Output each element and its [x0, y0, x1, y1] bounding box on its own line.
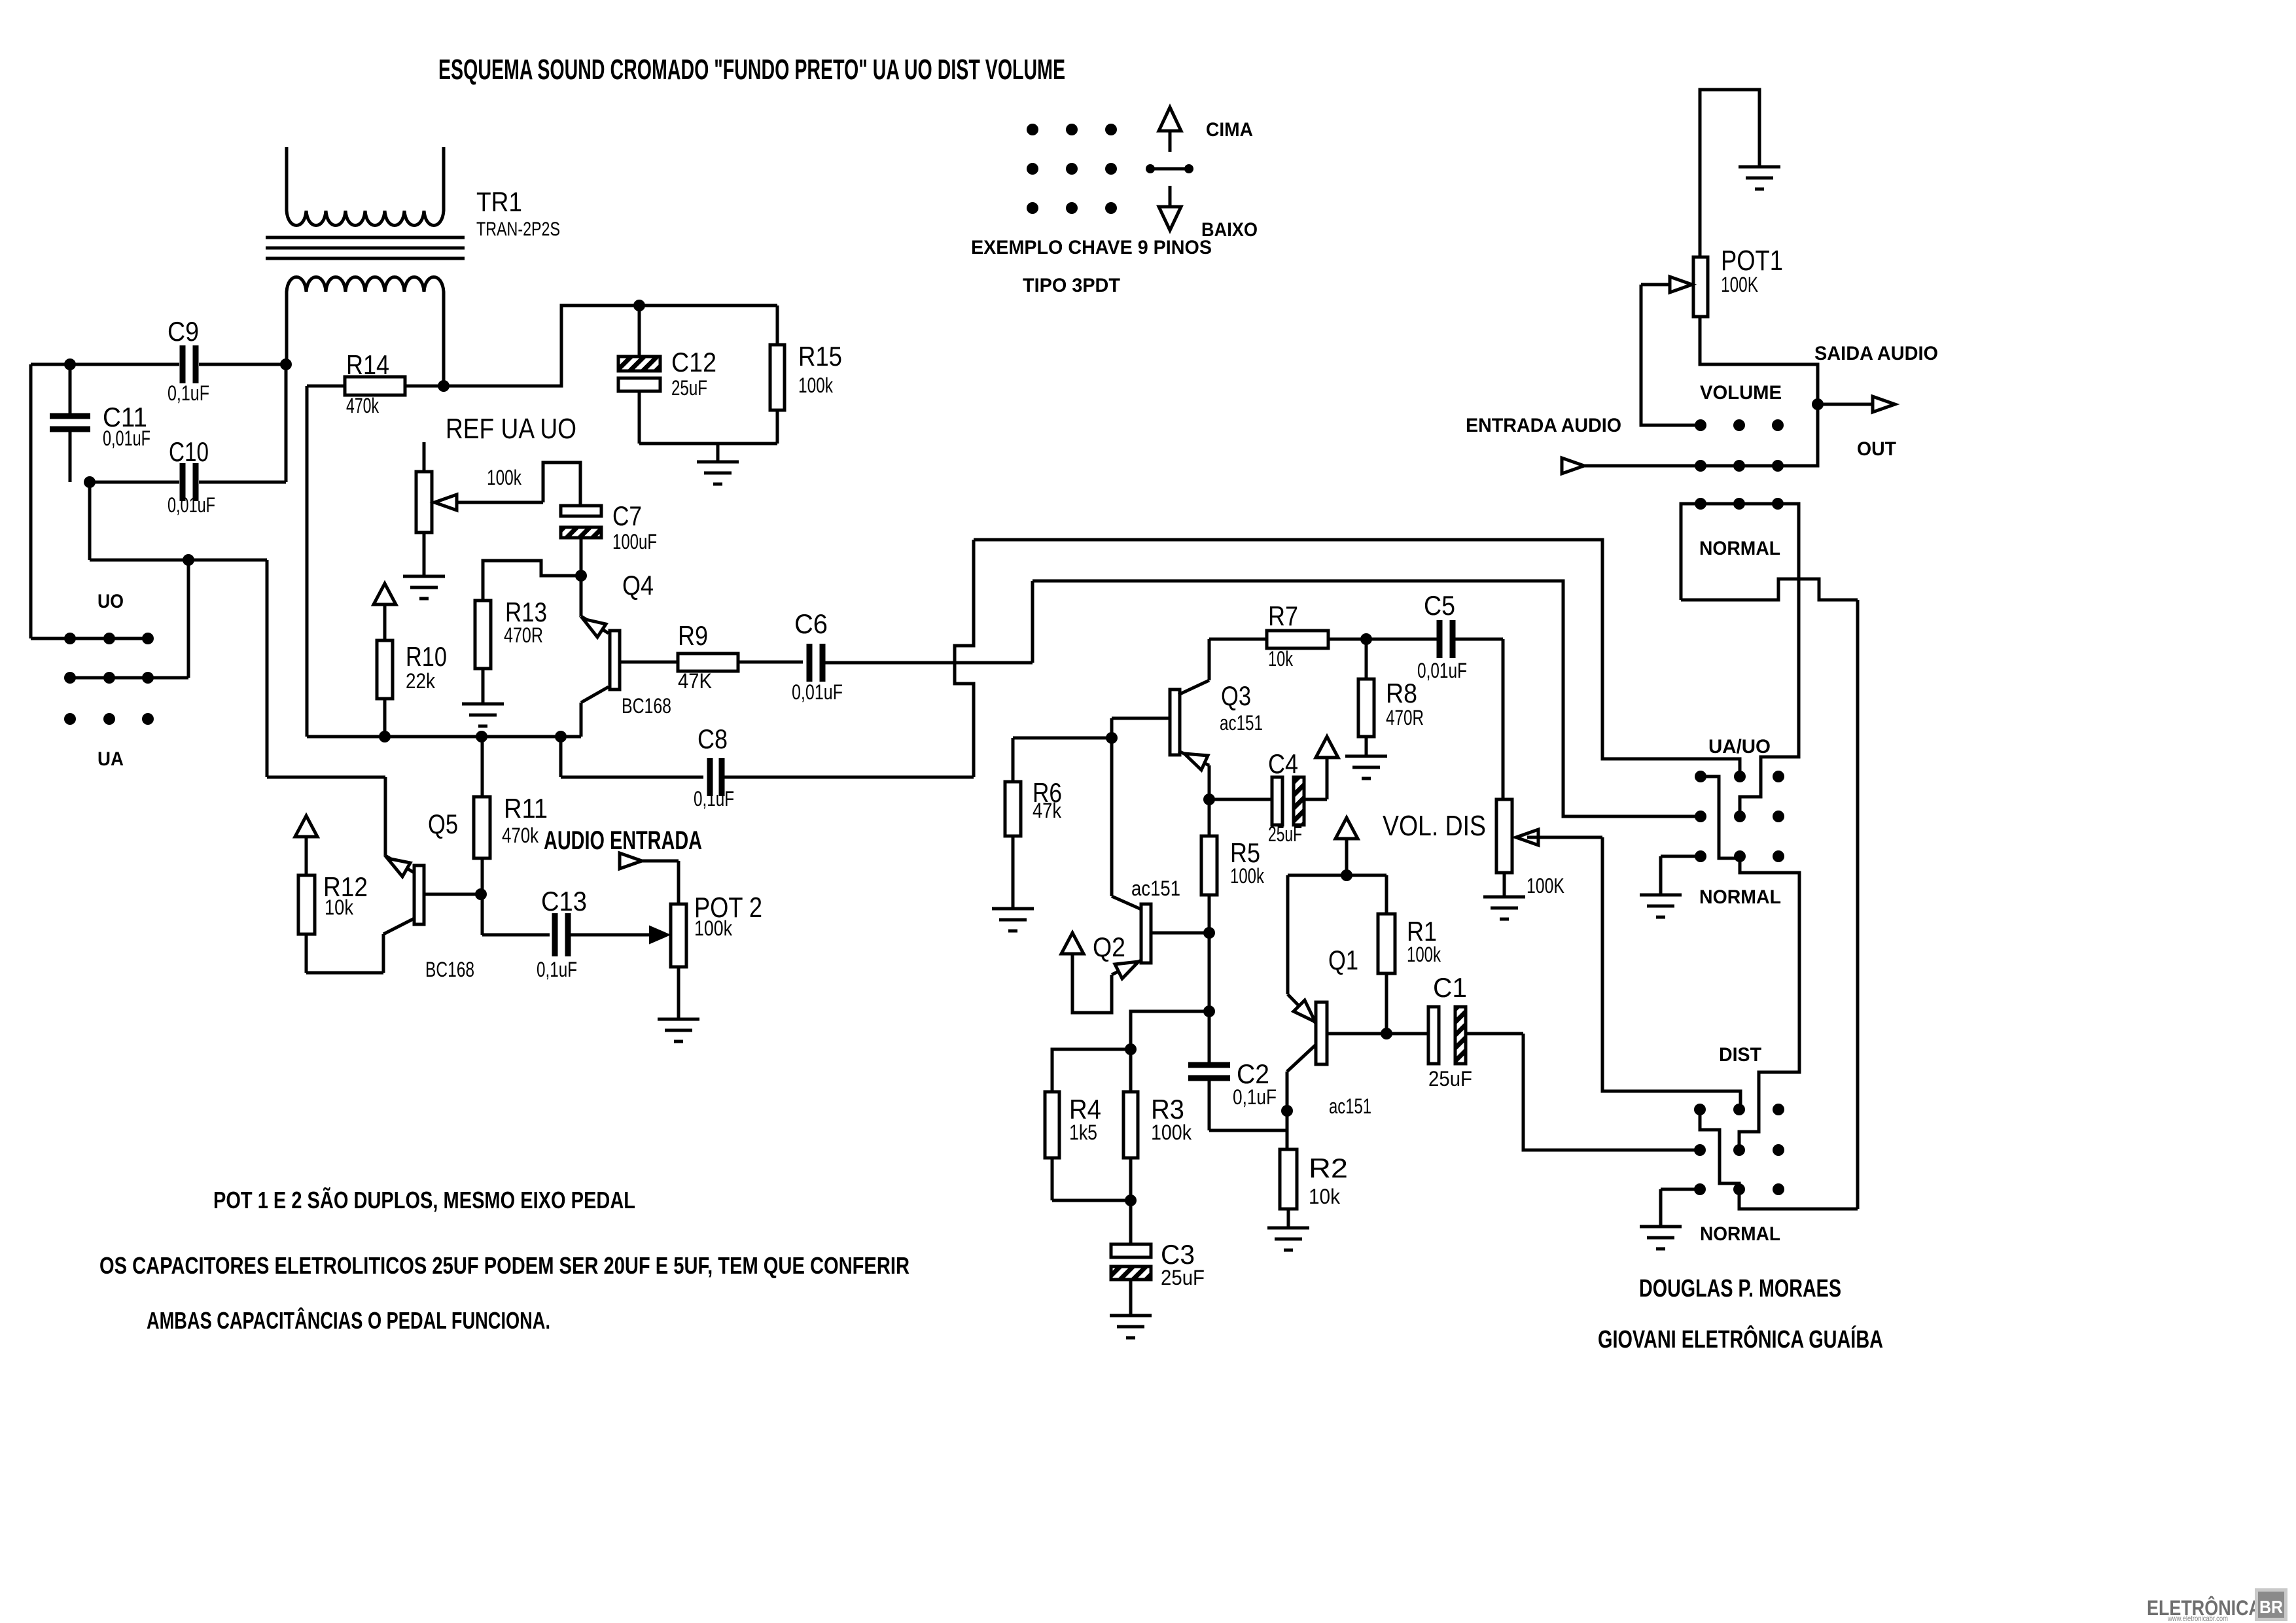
- svg-text:VOLUME: VOLUME: [1700, 382, 1782, 404]
- chave example CIMA arrow: [1159, 107, 1181, 152]
- node dot Q3 base / R6 / Q2 collector: [1106, 732, 1118, 744]
- wire C10 net: [90, 364, 286, 482]
- resistor R11: [474, 737, 490, 892]
- ground R13: [462, 704, 504, 726]
- POT1 wiper arrow: [1641, 277, 1701, 425]
- supply rail wire under Q4: [307, 735, 581, 739]
- svg-text:10k: 10k: [1268, 647, 1294, 671]
- label REF pot value 100k: [487, 466, 522, 489]
- label C5 value 0,01uF: [1417, 659, 1467, 682]
- switch DIST row3 pins: [1694, 1183, 1784, 1195]
- wire C5 to VOL.DIS pot: [1502, 639, 1505, 799]
- label Q3 type ac151: [1220, 711, 1263, 735]
- svg-text:100k: 100k: [1151, 1121, 1192, 1144]
- node dot C10 left: [84, 476, 96, 488]
- resistor R7: [1209, 631, 1366, 648]
- svg-text:0,01uF: 0,01uF: [792, 680, 843, 704]
- label C10: [169, 436, 209, 467]
- resistor R10: [377, 640, 393, 737]
- label OUT: [1857, 438, 1896, 460]
- label Q5: [428, 809, 458, 839]
- wire Q5 base to C13: [482, 894, 550, 935]
- svg-text:0,1uF: 0,1uF: [1233, 1085, 1277, 1109]
- label R8: [1386, 678, 1417, 708]
- label C2 value 0,1uF: [1233, 1085, 1277, 1109]
- node dot Q2 base / R5: [1203, 927, 1215, 939]
- label C11 value 0,01uF: [103, 427, 150, 450]
- wire C8 to hop: [722, 776, 974, 779]
- transistor Q1 emitter: [1288, 994, 1316, 1023]
- transistor Q5 collector: [306, 918, 414, 973]
- node dot R7/R8/C5: [1360, 633, 1372, 645]
- resistor R5: [1201, 799, 1217, 933]
- label C9 value 0,1uF: [168, 381, 209, 405]
- label POT 2: [694, 892, 762, 924]
- resistor R1: [1378, 875, 1395, 1034]
- capacitor C5: [1366, 620, 1503, 658]
- label R11 value 470k: [502, 824, 539, 847]
- label R9: [678, 620, 708, 651]
- transistor Q2 body bar: [1141, 904, 1151, 963]
- wire R5 node down to C2: [1208, 933, 1211, 1011]
- label NORMAL top box: [1699, 538, 1780, 559]
- label VOL.DIS value 100K: [1527, 874, 1564, 898]
- power arrow R10: [374, 584, 396, 640]
- label R14 value 470k: [346, 394, 380, 417]
- label Q5 type BC168: [425, 958, 474, 981]
- svg-text:R10: R10: [406, 641, 447, 672]
- capacitor C1 electrolytic: [1428, 1007, 1523, 1064]
- wire R13 top staircase: [483, 561, 581, 601]
- svg-text:R5: R5: [1230, 837, 1260, 868]
- svg-text:ac151: ac151: [1131, 877, 1180, 900]
- transistor Q1 collector: [1287, 1045, 1316, 1149]
- node dot rail C8: [555, 731, 567, 742]
- label REF UA UO: [446, 413, 576, 445]
- capacitor C11: [50, 364, 90, 482]
- potentiometer POT1: [1693, 257, 1708, 317]
- switch DIST row1 pins: [1694, 1104, 1784, 1115]
- resistor R12: [298, 875, 315, 973]
- wire TR1/R14 node to C12 block: [444, 305, 777, 386]
- ground POT2: [658, 1019, 699, 1041]
- svg-text:ac151: ac151: [1329, 1094, 1371, 1118]
- svg-text:Q5: Q5: [428, 809, 458, 839]
- label CIMA: [1206, 119, 1253, 141]
- svg-text:22k: 22k: [406, 669, 436, 693]
- svg-text:C8: C8: [698, 724, 728, 754]
- label Q4 type BC168: [622, 694, 671, 718]
- ground VOL.DIS: [1483, 897, 1525, 919]
- svg-text:10k: 10k: [1309, 1185, 1341, 1208]
- label C10 value 0,01uF: [168, 493, 215, 517]
- power arrow C4: [1316, 737, 1338, 799]
- transistor Q3 collector: [1178, 639, 1209, 695]
- label R4 value 1k5: [1069, 1121, 1097, 1144]
- wire hop over C6 wire: [955, 540, 974, 777]
- svg-text:470R: 470R: [504, 623, 543, 647]
- switch middle row pins: [64, 672, 154, 684]
- title ESQUEMA SOUND CROMADO: [438, 54, 1065, 86]
- svg-text:C12: C12: [671, 347, 716, 377]
- node dot rail R11: [476, 731, 487, 742]
- wire C12/R15 bottom: [639, 444, 777, 462]
- resistor R8: [1358, 639, 1374, 756]
- label TIPO 3PDT: [1023, 275, 1120, 296]
- capacitor C13: [555, 913, 568, 956]
- svg-text:1k5: 1k5: [1069, 1121, 1097, 1144]
- svg-text:R8: R8: [1386, 678, 1417, 708]
- svg-text:BR: BR: [2259, 1597, 2283, 1617]
- label C3: [1161, 1239, 1195, 1270]
- svg-text:GIOVANI ELETRÔNICA GUAÍBA: GIOVANI ELETRÔNICA GUAÍBA: [1598, 1324, 1883, 1353]
- chave example BAIXO arrow: [1159, 186, 1181, 230]
- svg-text:100uF: 100uF: [612, 530, 657, 553]
- svg-text:BC168: BC168: [622, 694, 671, 718]
- svg-text:EXEMPLO CHAVE 9 PINOS: EXEMPLO CHAVE 9 PINOS: [971, 237, 1212, 258]
- svg-text:POT1: POT1: [1721, 245, 1783, 277]
- label R6: [1033, 777, 1062, 808]
- label C7: [612, 500, 642, 531]
- resistor R14: [307, 377, 444, 395]
- capacitor C7 electrolytic: [561, 506, 601, 576]
- label R13 value 470R: [504, 623, 543, 647]
- label Q4: [622, 570, 654, 601]
- switch VOLUME row2 pins: [1695, 460, 1784, 472]
- svg-text:NORMAL: NORMAL: [1700, 1223, 1780, 1245]
- svg-text:47k: 47k: [1033, 799, 1062, 822]
- svg-text:25uF: 25uF: [1268, 822, 1302, 846]
- svg-text:R1: R1: [1407, 916, 1437, 947]
- transistor Q4 collector: [581, 687, 609, 737]
- ground C12/R15: [697, 462, 739, 484]
- resistor R9: [620, 654, 803, 671]
- resistor R3: [1123, 1049, 1138, 1200]
- svg-text:0,01uF: 0,01uF: [168, 493, 215, 517]
- label R7 value 10k: [1268, 647, 1294, 671]
- long wire A to UA/UO switch: [974, 540, 1740, 775]
- label R8 value 470R: [1386, 706, 1424, 729]
- node dot OUT: [1812, 398, 1824, 410]
- audio input arrow: [620, 853, 679, 904]
- entrada audio arrow: [1562, 458, 1778, 474]
- svg-text:100k: 100k: [1230, 864, 1265, 888]
- chave 9 pinos example pins: [1027, 124, 1117, 214]
- capacitor C9: [183, 345, 196, 383]
- label R2 value 10k: [1309, 1185, 1341, 1208]
- resistor R6: [1005, 738, 1112, 909]
- svg-text:25uF: 25uF: [1428, 1067, 1472, 1091]
- label DIST: [1719, 1044, 1761, 1066]
- svg-text:UA/UO: UA/UO: [1708, 736, 1771, 758]
- ground R6: [992, 909, 1034, 931]
- switch UO row1 pins: [64, 633, 154, 644]
- svg-text:C3: C3: [1161, 1239, 1195, 1270]
- svg-text:100k: 100k: [798, 374, 834, 397]
- wire POT1 top to ground: [1700, 90, 1759, 257]
- label R1: [1407, 916, 1437, 947]
- svg-text:47K: 47K: [678, 669, 712, 693]
- label R15: [798, 341, 842, 372]
- label R5 value 100k: [1230, 864, 1265, 888]
- svg-text:UO: UO: [97, 591, 124, 612]
- capacitor C12 electrolytic: [618, 305, 660, 444]
- credit DOUGLAS P. MORAES: [1639, 1275, 1841, 1302]
- label C7 value 100uF: [612, 530, 657, 553]
- node dot Q4 collector / C7: [575, 570, 587, 582]
- label R13: [505, 597, 547, 627]
- label R1 value 100k: [1407, 943, 1441, 966]
- potentiometer VOL.DIS: [1496, 799, 1512, 897]
- svg-text:0,1uF: 0,1uF: [694, 787, 734, 811]
- svg-text:Q4: Q4: [622, 570, 654, 601]
- power arrow R12: [295, 816, 317, 875]
- resistor R4: [1045, 1092, 1059, 1200]
- label R12: [323, 871, 368, 902]
- svg-text:100k: 100k: [694, 916, 733, 940]
- label C6 value 0,01uF: [792, 680, 843, 704]
- wire POT1 bottom to OUT: [1700, 317, 1818, 466]
- ground R8: [1345, 756, 1387, 778]
- transistor Q2 base wire: [1151, 932, 1209, 935]
- svg-text:REF UA UO: REF UA UO: [446, 413, 576, 445]
- label BAIXO: [1201, 219, 1258, 241]
- wire UA/UO row1col1 to row3col2: [1701, 777, 1739, 858]
- label R15 value 100k: [798, 374, 834, 397]
- svg-text:OUT: OUT: [1857, 438, 1896, 460]
- svg-text:C1: C1: [1433, 972, 1467, 1003]
- svg-text:C5: C5: [1424, 590, 1455, 621]
- ground REF pot: [403, 576, 445, 599]
- wire C9 net top-left: [31, 364, 286, 638]
- node dot Q1 base / R1: [1381, 1028, 1392, 1039]
- transformer TR1 secondary winding and leads: [287, 277, 444, 387]
- svg-text:C9: C9: [168, 316, 199, 347]
- wire UA/UO row3col2 to DIST: [1739, 856, 1799, 1147]
- wire C13 to POT2 wiper: [568, 926, 669, 943]
- watermark ELETRONICA BR logo: [2147, 1588, 2287, 1623]
- node dot R3/R4 top: [1125, 1043, 1137, 1055]
- svg-text:Q2: Q2: [1093, 932, 1125, 962]
- transistor Q4 body bar: [610, 631, 620, 689]
- svg-text:R13: R13: [505, 597, 547, 627]
- svg-text:R7: R7: [1268, 601, 1298, 631]
- label C12: [671, 347, 716, 377]
- svg-text:VOL. DIS: VOL. DIS: [1383, 810, 1486, 842]
- label Q3: [1221, 680, 1251, 711]
- transistor Q1 body bar: [1316, 1002, 1327, 1064]
- switch middle row wire: [70, 676, 148, 680]
- transformer TR1 core: [266, 237, 465, 258]
- ground DIST: [1640, 1227, 1682, 1249]
- wire switch feed to row2: [148, 560, 188, 678]
- svg-text:TRAN-2P2S: TRAN-2P2S: [476, 218, 560, 240]
- svg-text:C13: C13: [541, 886, 587, 916]
- svg-text:C2: C2: [1237, 1058, 1269, 1089]
- chave example middle contact: [1146, 164, 1193, 173]
- long wire B to UA/UO switch: [1033, 581, 1701, 816]
- label R11: [504, 793, 548, 824]
- label VOL. DIS: [1383, 810, 1486, 842]
- NORMAL box wiring: [1681, 504, 1799, 814]
- svg-text:0,1uF: 0,1uF: [537, 958, 577, 981]
- label POT1: [1721, 245, 1783, 277]
- transistor Q2 emitter: [1072, 952, 1141, 1013]
- note line 2: [99, 1252, 910, 1279]
- transistor Q5 emitter: [385, 856, 414, 877]
- ground UA/UO: [1640, 895, 1682, 917]
- capacitor C6: [809, 644, 822, 682]
- svg-text:ENTRADA AUDIO: ENTRADA AUDIO: [1466, 415, 1621, 436]
- svg-text:TIPO 3PDT: TIPO 3PDT: [1023, 275, 1120, 296]
- label NORMAL bottom: [1700, 1223, 1780, 1245]
- wire DIST row3col2 to long wire: [1739, 1189, 1858, 1209]
- svg-text:AMBAS CAPACITÂNCIAS O PEDAL FU: AMBAS CAPACITÂNCIAS O PEDAL FUNCIONA.: [147, 1306, 550, 1334]
- svg-text:100K: 100K: [1527, 874, 1564, 898]
- node dot Q1 rail: [1341, 869, 1352, 881]
- svg-text:R2: R2: [1309, 1153, 1348, 1183]
- wire C1 to DIST switch: [1523, 1034, 1700, 1150]
- potentiometer REF UA UO 100k: [416, 442, 432, 576]
- svg-text:C4: C4: [1268, 748, 1298, 779]
- svg-text:ac151: ac151: [1220, 711, 1263, 735]
- label C13 value 0,1uF: [537, 958, 577, 981]
- node dot C2 / R3R4 branch: [1203, 1005, 1215, 1017]
- svg-text:NORMAL: NORMAL: [1699, 886, 1781, 908]
- svg-text:10k: 10k: [325, 896, 354, 919]
- potentiometer POT 2: [671, 904, 686, 1019]
- svg-text:R11: R11: [504, 793, 548, 824]
- svg-text:R14: R14: [346, 349, 389, 380]
- NORMAL box bottom with hop: [1681, 579, 1858, 600]
- resistor R15: [770, 305, 785, 444]
- svg-text:TR1: TR1: [476, 186, 522, 217]
- label R4: [1069, 1094, 1101, 1125]
- svg-text:470k: 470k: [346, 394, 380, 417]
- svg-text:AUDIO ENTRADA: AUDIO ENTRADA: [544, 826, 702, 855]
- wire VOL.DIS wiper to DIST switch: [1602, 837, 1740, 1107]
- switch UA row pins: [64, 713, 154, 725]
- svg-text:SAIDA AUDIO: SAIDA AUDIO: [1814, 343, 1938, 364]
- transistor Q1 base wire: [1327, 1032, 1428, 1036]
- transformer TR1 primary winding and leads: [287, 147, 444, 226]
- svg-text:Q1: Q1: [1328, 945, 1358, 975]
- label Q2: [1093, 932, 1125, 962]
- svg-text:Q3: Q3: [1221, 680, 1251, 711]
- wire switch feed to Q5 emitter: [267, 560, 385, 856]
- label C3 value 25uF: [1161, 1266, 1205, 1289]
- long wire NORMAL box to DIST: [1856, 600, 1860, 1209]
- label C11: [103, 402, 147, 432]
- svg-text:R15: R15: [798, 341, 842, 372]
- svg-text:100k: 100k: [1407, 943, 1441, 966]
- switch UA/UO row1 pins: [1695, 771, 1784, 782]
- node dot rail R10: [379, 731, 391, 742]
- capacitor C4 electrolytic: [1209, 777, 1327, 825]
- switch VOLUME row1 pins: [1695, 419, 1784, 431]
- capacitor C3 electrolytic: [1111, 1200, 1151, 1316]
- svg-text:0,01uF: 0,01uF: [103, 427, 150, 450]
- label C5: [1424, 590, 1455, 621]
- label SAIDA AUDIO: [1814, 343, 1938, 364]
- svg-text:OS CAPACITORES ELETROLITICOS 2: OS CAPACITORES ELETROLITICOS 25UF PODEM …: [99, 1252, 910, 1279]
- wire from C10 node down to switch feed: [90, 482, 267, 560]
- label UO: [97, 591, 124, 612]
- capacitor C10: [183, 463, 196, 501]
- ground C3: [1110, 1316, 1152, 1338]
- label R9 value 47K: [678, 669, 712, 693]
- label R10 value 22k: [406, 669, 436, 693]
- transistor Q5 base wire: [424, 893, 481, 896]
- label AUDIO ENTRADA: [544, 826, 702, 855]
- svg-text:www.eletronicabr.com: www.eletronicabr.com: [2167, 1614, 2228, 1623]
- svg-text:DOUGLAS P. MORAES: DOUGLAS P. MORAES: [1639, 1275, 1841, 1302]
- svg-text:CIMA: CIMA: [1206, 119, 1253, 141]
- node dot C9 right / TR1 lead: [280, 358, 292, 370]
- OUT arrow: [1818, 396, 1895, 412]
- switch UO row1 wire: [31, 637, 148, 640]
- node dot R14 right / TR1 lead: [438, 380, 450, 392]
- wire Q1 rail: [1288, 875, 1386, 994]
- svg-text:UA: UA: [97, 748, 124, 770]
- VOL.DIS wiper arrow: [1516, 829, 1602, 845]
- label R3: [1151, 1094, 1184, 1125]
- credit GIOVANI ELETRONICA GUAIBA: [1598, 1324, 1883, 1353]
- label C4 value 25uF: [1268, 822, 1302, 846]
- label Q1: [1328, 945, 1358, 975]
- node dot switch feed: [183, 554, 194, 566]
- capacitor C8: [710, 758, 722, 796]
- label UA/UO: [1708, 736, 1771, 758]
- node dot C12 top: [633, 300, 645, 311]
- label R7: [1268, 601, 1298, 631]
- svg-text:470R: 470R: [1386, 706, 1424, 729]
- label ENTRADA AUDIO: [1466, 415, 1621, 436]
- wire to R3/R4 divider: [1131, 1011, 1209, 1049]
- ground R2: [1267, 1228, 1309, 1250]
- label TR1: [476, 186, 522, 217]
- label NORMAL mid: [1699, 886, 1781, 908]
- svg-text:0,01uF: 0,01uF: [1417, 659, 1467, 682]
- label VOLUME: [1700, 382, 1782, 404]
- label R10: [406, 641, 447, 672]
- label R5: [1230, 837, 1260, 868]
- label C1 value 25uF: [1428, 1067, 1472, 1091]
- svg-text:NORMAL: NORMAL: [1699, 538, 1780, 559]
- label R12 value 10k: [325, 896, 354, 919]
- transistor Q3 body bar: [1170, 689, 1180, 755]
- wire DIST row3col1 to ground: [1661, 1189, 1700, 1227]
- wire rail to C8: [561, 737, 703, 777]
- node dot Q1 collector / C2 / R2: [1281, 1105, 1293, 1117]
- transistor Q5 body bar: [414, 865, 424, 924]
- label TRAN-2P2S: [476, 218, 560, 240]
- wire UA/UO row3col1 to ground: [1661, 856, 1701, 895]
- svg-text:0,1uF: 0,1uF: [168, 381, 209, 405]
- svg-text:ESQUEMA SOUND CROMADO "FUNDO P: ESQUEMA SOUND CROMADO "FUNDO PRETO" UA U…: [438, 54, 1065, 86]
- label C8 value 0,1uF: [694, 787, 734, 811]
- label C9: [168, 316, 199, 347]
- resistor R2: [1280, 1149, 1297, 1228]
- svg-text:C10: C10: [169, 436, 209, 467]
- switch VOLUME row3 pins: [1695, 498, 1784, 510]
- ground POT1 top: [1739, 167, 1780, 189]
- note line 1: [213, 1186, 635, 1213]
- svg-text:100K: 100K: [1721, 273, 1758, 296]
- label C1: [1433, 972, 1467, 1003]
- transistor Q4 emitter: [581, 576, 609, 637]
- label C2: [1237, 1058, 1269, 1089]
